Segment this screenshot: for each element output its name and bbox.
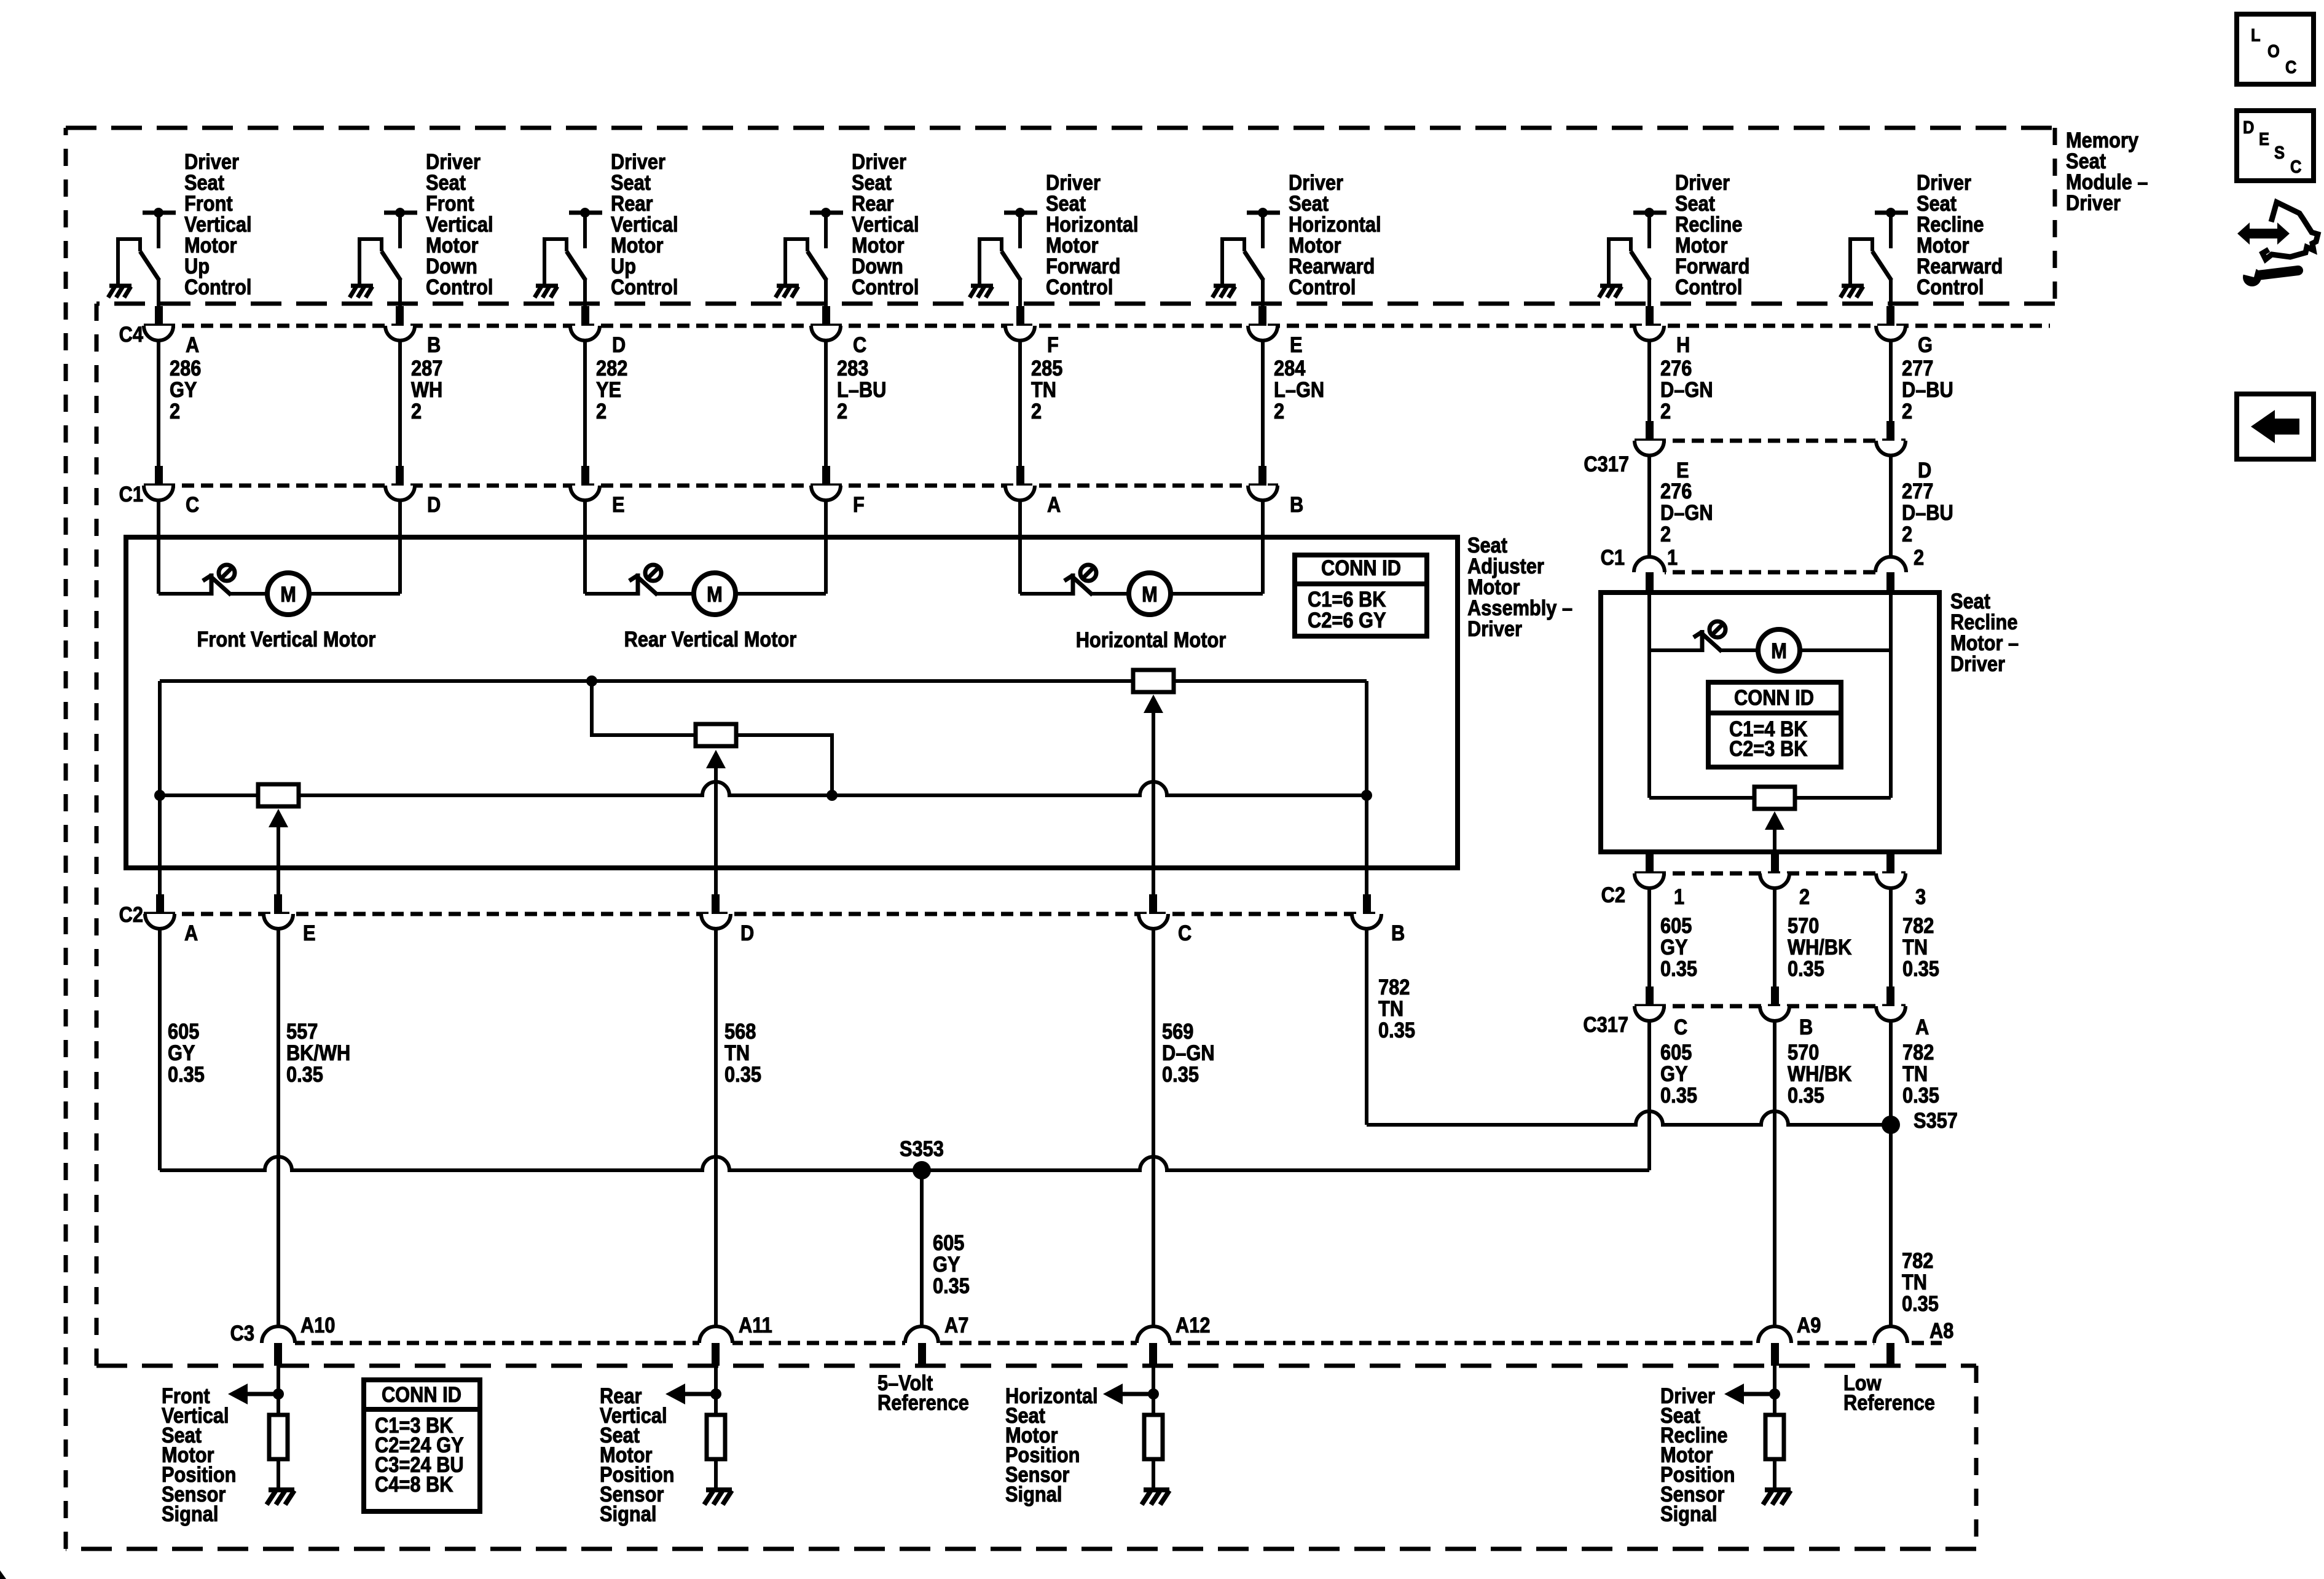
motor M: Horizontal Motor with circuit breaker — [1020, 565, 1263, 615]
svg-text:A11: A11 — [739, 1313, 772, 1337]
wire 782 vertical — [1889, 888, 1893, 986]
node junction on line A for rear sensor — [586, 675, 597, 687]
signal branch: rear vertical seat motor position sensor — [665, 1366, 732, 1505]
connector C1 of seat recline motor — [1635, 570, 1906, 575]
svg-text:A9: A9 — [1797, 1313, 1821, 1337]
switch: driver seat front vertical up control — [108, 149, 252, 307]
connector C1 — [144, 484, 1278, 488]
C317 pin E — [1635, 421, 1689, 482]
recline C1 pin 1 — [1634, 545, 1678, 594]
module outline: Memory Seat Module - Driver dashed boundary — [66, 128, 2055, 1549]
splice S357 — [1882, 1116, 1900, 1134]
svg-text:A: A — [1047, 492, 1061, 516]
wire 569 D-GN from C2 C to C3 A12 — [1152, 929, 1155, 1328]
svg-text:E: E — [612, 492, 625, 516]
signal branch: recline motor position sensor — [1724, 1366, 1791, 1505]
C1 pin A — [1005, 466, 1061, 516]
svg-text:C317: C317 — [1583, 1012, 1628, 1036]
component box: Seat Recline Motor - Driver — [1601, 593, 1939, 852]
wire 605 vertical — [1647, 888, 1651, 986]
wire 605 GY from S353 down to C3 A7 — [920, 1170, 924, 1328]
svg-text:Front Vertical Motor: Front Vertical Motor — [197, 627, 376, 651]
svg-text:C1=4 BKC2=3 BK: C1=4 BKC2=3 BK — [1729, 717, 1808, 760]
svg-text:CONN ID: CONN ID — [1734, 685, 1814, 709]
C1 pin D — [385, 466, 441, 516]
C3 pin A7 — [905, 1313, 968, 1366]
node junction rear sensor to line B — [826, 790, 838, 801]
wire from C1 pin A into seat adjuster — [1018, 500, 1022, 594]
svg-text:C4: C4 — [119, 322, 144, 346]
wire: sensor feed line upper (line A) — [160, 679, 1367, 683]
signal branch: front vertical seat motor position sensor — [228, 1366, 294, 1505]
C4 pin H — [1635, 306, 1690, 356]
C2 pin E — [264, 894, 316, 945]
C4 pin D — [570, 306, 626, 356]
C3 pin A12 — [1137, 1313, 1211, 1366]
svg-text:3: 3 — [1915, 884, 1926, 908]
svg-text:M: M — [1142, 582, 1158, 606]
wire 782 TN from C317 A through S357 to C3 A8 — [1889, 1021, 1893, 1328]
wire 782 TN from C2 B to S357 line — [1365, 929, 1368, 1125]
svg-text:F: F — [853, 492, 865, 516]
svg-text:B: B — [1391, 921, 1405, 945]
C2 pin A — [145, 894, 198, 945]
svg-text:C: C — [2285, 57, 2296, 77]
svg-text:1: 1 — [1667, 545, 1678, 569]
C3 pin A11 — [699, 1313, 772, 1366]
wire: right vertical branch to C2 pin B — [1365, 681, 1368, 897]
component box: Seat Adjuster Motor Assembly - Driver — [126, 537, 1458, 868]
recline C2 pin 1 — [1635, 854, 1684, 908]
svg-text:M: M — [280, 582, 296, 606]
signal branch: horizontal seat motor position sensor — [1103, 1366, 1169, 1505]
C317 pin B — [1760, 986, 1813, 1039]
svg-text:S357: S357 — [1914, 1108, 1958, 1132]
C4 pin B — [385, 306, 441, 356]
C3 pin A10 — [262, 1313, 335, 1366]
wire 570 WH/BK from C317 B down to C3 A9 — [1773, 1021, 1776, 1328]
C2 pin C — [1139, 894, 1191, 945]
wire 605 GY from C317 C down to 5V reference line — [1647, 1021, 1651, 1170]
connector C4 — [144, 324, 2050, 328]
C4 pin F — [1005, 306, 1059, 356]
switch: driver seat rear vertical down control — [775, 149, 919, 307]
C317 pin D — [1876, 421, 1931, 482]
motor M: Front Vertical Motor with circuit breaker — [159, 565, 400, 615]
icon box back-arrow — [2237, 394, 2314, 459]
C317 pin C — [1635, 986, 1687, 1039]
potentiometer: recline position sensor — [1649, 787, 1891, 857]
icon box LOC — [2237, 14, 2314, 84]
svg-text:E: E — [303, 921, 316, 945]
connector C3 — [292, 1341, 1942, 1345]
C317 pin A — [1876, 986, 1929, 1039]
svg-text:Horizontal Motor: Horizontal Motor — [1076, 628, 1227, 652]
potentiometer: front vertical position sensor — [258, 784, 299, 897]
svg-text:C2: C2 — [119, 902, 143, 926]
C2 pin B — [1352, 894, 1405, 945]
svg-text:A: A — [1915, 1015, 1929, 1039]
svg-text:G: G — [1918, 333, 1933, 356]
svg-text:C: C — [1674, 1015, 1687, 1039]
switch: driver seat rear vertical up control — [535, 149, 678, 307]
svg-text:S: S — [2274, 142, 2285, 162]
CONN ID table of recline motor — [1708, 682, 1841, 767]
icon box DESC — [2237, 111, 2314, 181]
svg-text:CONN ID: CONN ID — [382, 1382, 461, 1406]
potentiometer: horizontal position sensor — [1133, 670, 1174, 897]
wire 570 vertical — [1773, 888, 1776, 986]
svg-text:L: L — [2251, 25, 2261, 45]
svg-text:F: F — [1047, 333, 1059, 356]
svg-text:C3: C3 — [230, 1321, 254, 1345]
switch: driver seat horizontal rearward control — [1212, 170, 1381, 307]
connector C2 of seat adjuster — [144, 912, 1381, 916]
svg-text:S353: S353 — [900, 1136, 944, 1160]
splice S353 — [913, 1161, 931, 1179]
wire circuit 276 vertical segment — [1647, 341, 1651, 424]
connector C317 (recline wires) — [1635, 439, 1906, 443]
wire circuit 277 vertical segment — [1889, 341, 1893, 424]
svg-text:Rear Vertical Motor: Rear Vertical Motor — [624, 627, 797, 651]
svg-text:A8: A8 — [1929, 1318, 1953, 1342]
C4 pin E — [1248, 306, 1303, 356]
wire from C1 pin B into seat adjuster — [1261, 500, 1265, 594]
svg-text:C1: C1 — [119, 482, 143, 506]
wire circuit 284 vertical segment — [1261, 341, 1265, 468]
wire: 605 GY 5-volt reference line with hops — [160, 1157, 1649, 1170]
wire: rear sensor drop and row — [592, 681, 832, 795]
C1 pin C — [144, 466, 199, 516]
C4 pin G — [1876, 306, 1933, 356]
svg-text:B: B — [427, 333, 441, 356]
recline C2 pin 2 — [1760, 854, 1810, 908]
svg-text:C317: C317 — [1584, 452, 1629, 476]
node junction line B right — [1361, 790, 1372, 801]
svg-text:A10: A10 — [300, 1313, 335, 1337]
svg-text:2: 2 — [1799, 884, 1810, 908]
CONN ID table of seat adjuster — [1295, 555, 1427, 636]
icon: adjust arrows with wrench — [2237, 202, 2318, 286]
svg-text:C: C — [2290, 156, 2301, 176]
svg-text:C2: C2 — [1601, 883, 1625, 907]
C4 pin A — [144, 306, 199, 356]
svg-text:C: C — [853, 333, 866, 356]
svg-text:B: B — [1290, 492, 1303, 516]
C3 pin A8 — [1874, 1318, 1953, 1366]
svg-text:CONN ID: CONN ID — [1321, 556, 1401, 580]
wire: 782 TN horizontal to S357 with hops — [1367, 1111, 1891, 1125]
wire circuit 283 vertical segment — [824, 341, 828, 468]
svg-text:A12: A12 — [1176, 1313, 1210, 1337]
connector C2 of recline motor — [1635, 872, 1906, 876]
C1 pin F — [811, 466, 865, 516]
C1 pin B — [1248, 466, 1303, 516]
svg-text:D: D — [740, 921, 754, 945]
wire from C1 pin C into seat adjuster — [157, 500, 160, 594]
recline C1 pin 2 — [1875, 545, 1924, 594]
switch: driver seat horizontal forward control — [970, 170, 1139, 307]
svg-text:M: M — [1771, 639, 1787, 663]
C4 pin C — [811, 306, 866, 356]
wire from C1 pin D into seat adjuster — [398, 500, 402, 594]
wire 568 TN from C2 D to C3 A11 — [714, 929, 718, 1328]
wire from C1 pin F into seat adjuster — [824, 500, 828, 594]
svg-text:C: C — [1178, 921, 1191, 945]
svg-text:D: D — [612, 333, 626, 356]
wire 557 BK/WH from C2 E to C3 A10 — [277, 929, 280, 1328]
svg-text:A: A — [184, 921, 198, 945]
node junction line B left — [154, 790, 165, 801]
svg-text:E: E — [1290, 333, 1303, 356]
svg-text:B: B — [1799, 1015, 1813, 1039]
svg-text:C1=6 BKC2=6 GY: C1=6 BKC2=6 GY — [1308, 587, 1386, 632]
motor M: Rear Vertical Motor with circuit breaker — [585, 565, 826, 615]
switch: driver seat recline forward control — [1599, 170, 1749, 307]
svg-text:D: D — [427, 492, 441, 516]
svg-text:1: 1 — [1674, 884, 1684, 908]
svg-text:H: H — [1676, 333, 1690, 356]
wire circuit 287 vertical segment — [398, 341, 402, 468]
connector C317 lower row — [1635, 1004, 1906, 1009]
CONN ID table bottom — [364, 1380, 480, 1511]
C3 pin A9 — [1758, 1313, 1821, 1366]
svg-text:C1: C1 — [1601, 545, 1625, 569]
wire 276 vertical to recline C1 — [1647, 455, 1651, 557]
svg-text:C1=3 BKC2=24 GYC3=24 BUC4=8 BK: C1=3 BKC2=24 GYC3=24 BUC4=8 BK — [375, 1413, 464, 1496]
svg-text:O: O — [2267, 41, 2280, 61]
wire from C1 pin E into seat adjuster — [583, 500, 587, 594]
wire circuit 285 vertical segment — [1018, 341, 1022, 468]
wire 605 GY from C2 A down to S353 line — [158, 929, 162, 1170]
svg-text:2: 2 — [1914, 545, 1924, 569]
C2 pin D — [701, 894, 754, 945]
recline C2 pin 3 — [1876, 854, 1926, 908]
wire circuit 286 vertical segment — [157, 341, 160, 468]
page corner mark — [0, 1570, 6, 1579]
wire 277 vertical to recline C1 — [1889, 455, 1893, 557]
svg-text:M: M — [707, 582, 723, 606]
svg-text:C: C — [186, 492, 199, 516]
svg-text:A7: A7 — [944, 1313, 968, 1337]
switch: driver seat front vertical down control — [350, 149, 493, 307]
potentiometer: rear vertical position sensor — [696, 724, 736, 897]
wire: left vertical 5V branch — [158, 681, 162, 897]
svg-text:D: D — [2243, 117, 2254, 137]
switch: driver seat recline rearward control — [1840, 170, 2003, 307]
wire: sensor line B with hops — [160, 782, 1367, 795]
C1 pin E — [570, 466, 625, 516]
svg-text:A: A — [186, 333, 199, 356]
motor M: Seat Recline Motor with circuit breaker — [1649, 593, 1891, 798]
svg-text:E: E — [2259, 128, 2269, 149]
wire circuit 282 vertical segment — [583, 341, 587, 468]
